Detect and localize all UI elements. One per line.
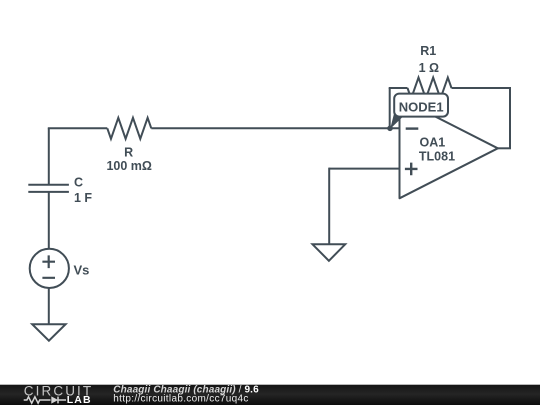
resistor R bbox=[107, 118, 151, 139]
op-amp non-inverting input marker + bbox=[405, 163, 418, 176]
junction dot at NODE1 bbox=[387, 126, 393, 132]
CircuitLab logo: circuit squiggle (resistor + diode) bbox=[24, 396, 66, 403]
svg-text:C: C bbox=[74, 175, 83, 189]
label OA1 bbox=[420, 136, 446, 150]
label R bbox=[124, 145, 133, 159]
value 100 mΩ bbox=[106, 159, 151, 173]
node label NODE1 box bbox=[394, 94, 448, 117]
wire: main horizontal, corner to resistor R bbox=[48, 127, 108, 129]
label R1 bbox=[420, 44, 436, 58]
label TL081 bbox=[419, 149, 455, 163]
wire: feedback top, R1 to right corner bbox=[452, 87, 511, 89]
wire: capacitor bottom to voltage source bbox=[48, 192, 50, 249]
svg-text:OA1: OA1 bbox=[420, 136, 446, 150]
value 1 Ω bbox=[419, 61, 439, 75]
wire: feedback right vertical down to output bbox=[509, 87, 511, 148]
op-amp inverting input marker − bbox=[406, 127, 419, 129]
resistor R1 (feedback) bbox=[408, 78, 452, 99]
capacitor C bbox=[28, 185, 69, 192]
value 1 F bbox=[74, 191, 92, 205]
wire: feedback top, left segment to R1 bbox=[389, 87, 408, 89]
svg-text:100 mΩ: 100 mΩ bbox=[106, 159, 151, 173]
ground (under Vs) bbox=[32, 324, 65, 341]
wire: non-inverting input horizontal bbox=[329, 168, 399, 170]
CircuitLab logo: CIRCUIT bbox=[24, 383, 93, 398]
CircuitLab logo: LAB bbox=[67, 394, 92, 405]
wire: feedback left vertical (junction up) bbox=[389, 88, 391, 128]
wire: voltage source to ground bbox=[48, 288, 50, 324]
footer bar bbox=[0, 385, 540, 405]
footer url text bbox=[113, 394, 248, 405]
svg-text:1 F: 1 F bbox=[74, 191, 92, 205]
op-amp U1 triangle bbox=[400, 98, 498, 198]
wire: non-inverting input vertical to ground bbox=[328, 168, 330, 245]
svg-text:TL081: TL081 bbox=[419, 149, 455, 163]
svg-text:Vs: Vs bbox=[74, 262, 90, 277]
voltage source Vs bbox=[30, 249, 69, 288]
svg-text:R: R bbox=[124, 145, 133, 159]
label C bbox=[74, 175, 83, 189]
wire: op-amp output to feedback corner bbox=[498, 147, 511, 149]
svg-text:NODE1: NODE1 bbox=[399, 100, 444, 115]
svg-text:R1: R1 bbox=[420, 44, 436, 58]
svg-text:http://circuitlab.com/cc7uq4c: http://circuitlab.com/cc7uq4c bbox=[113, 394, 248, 405]
svg-text:1 Ω: 1 Ω bbox=[419, 61, 439, 75]
wire: capacitor top to main-wire corner bbox=[48, 128, 50, 184]
wire: resistor R to op-amp inverting input bbox=[151, 127, 399, 129]
svg-text:LAB: LAB bbox=[67, 394, 92, 405]
footer title text bbox=[113, 385, 259, 396]
ground (op-amp non-inverting input) bbox=[313, 244, 346, 260]
label Vs bbox=[74, 262, 90, 277]
node label NODE1 callout pointer bbox=[390, 114, 403, 129]
